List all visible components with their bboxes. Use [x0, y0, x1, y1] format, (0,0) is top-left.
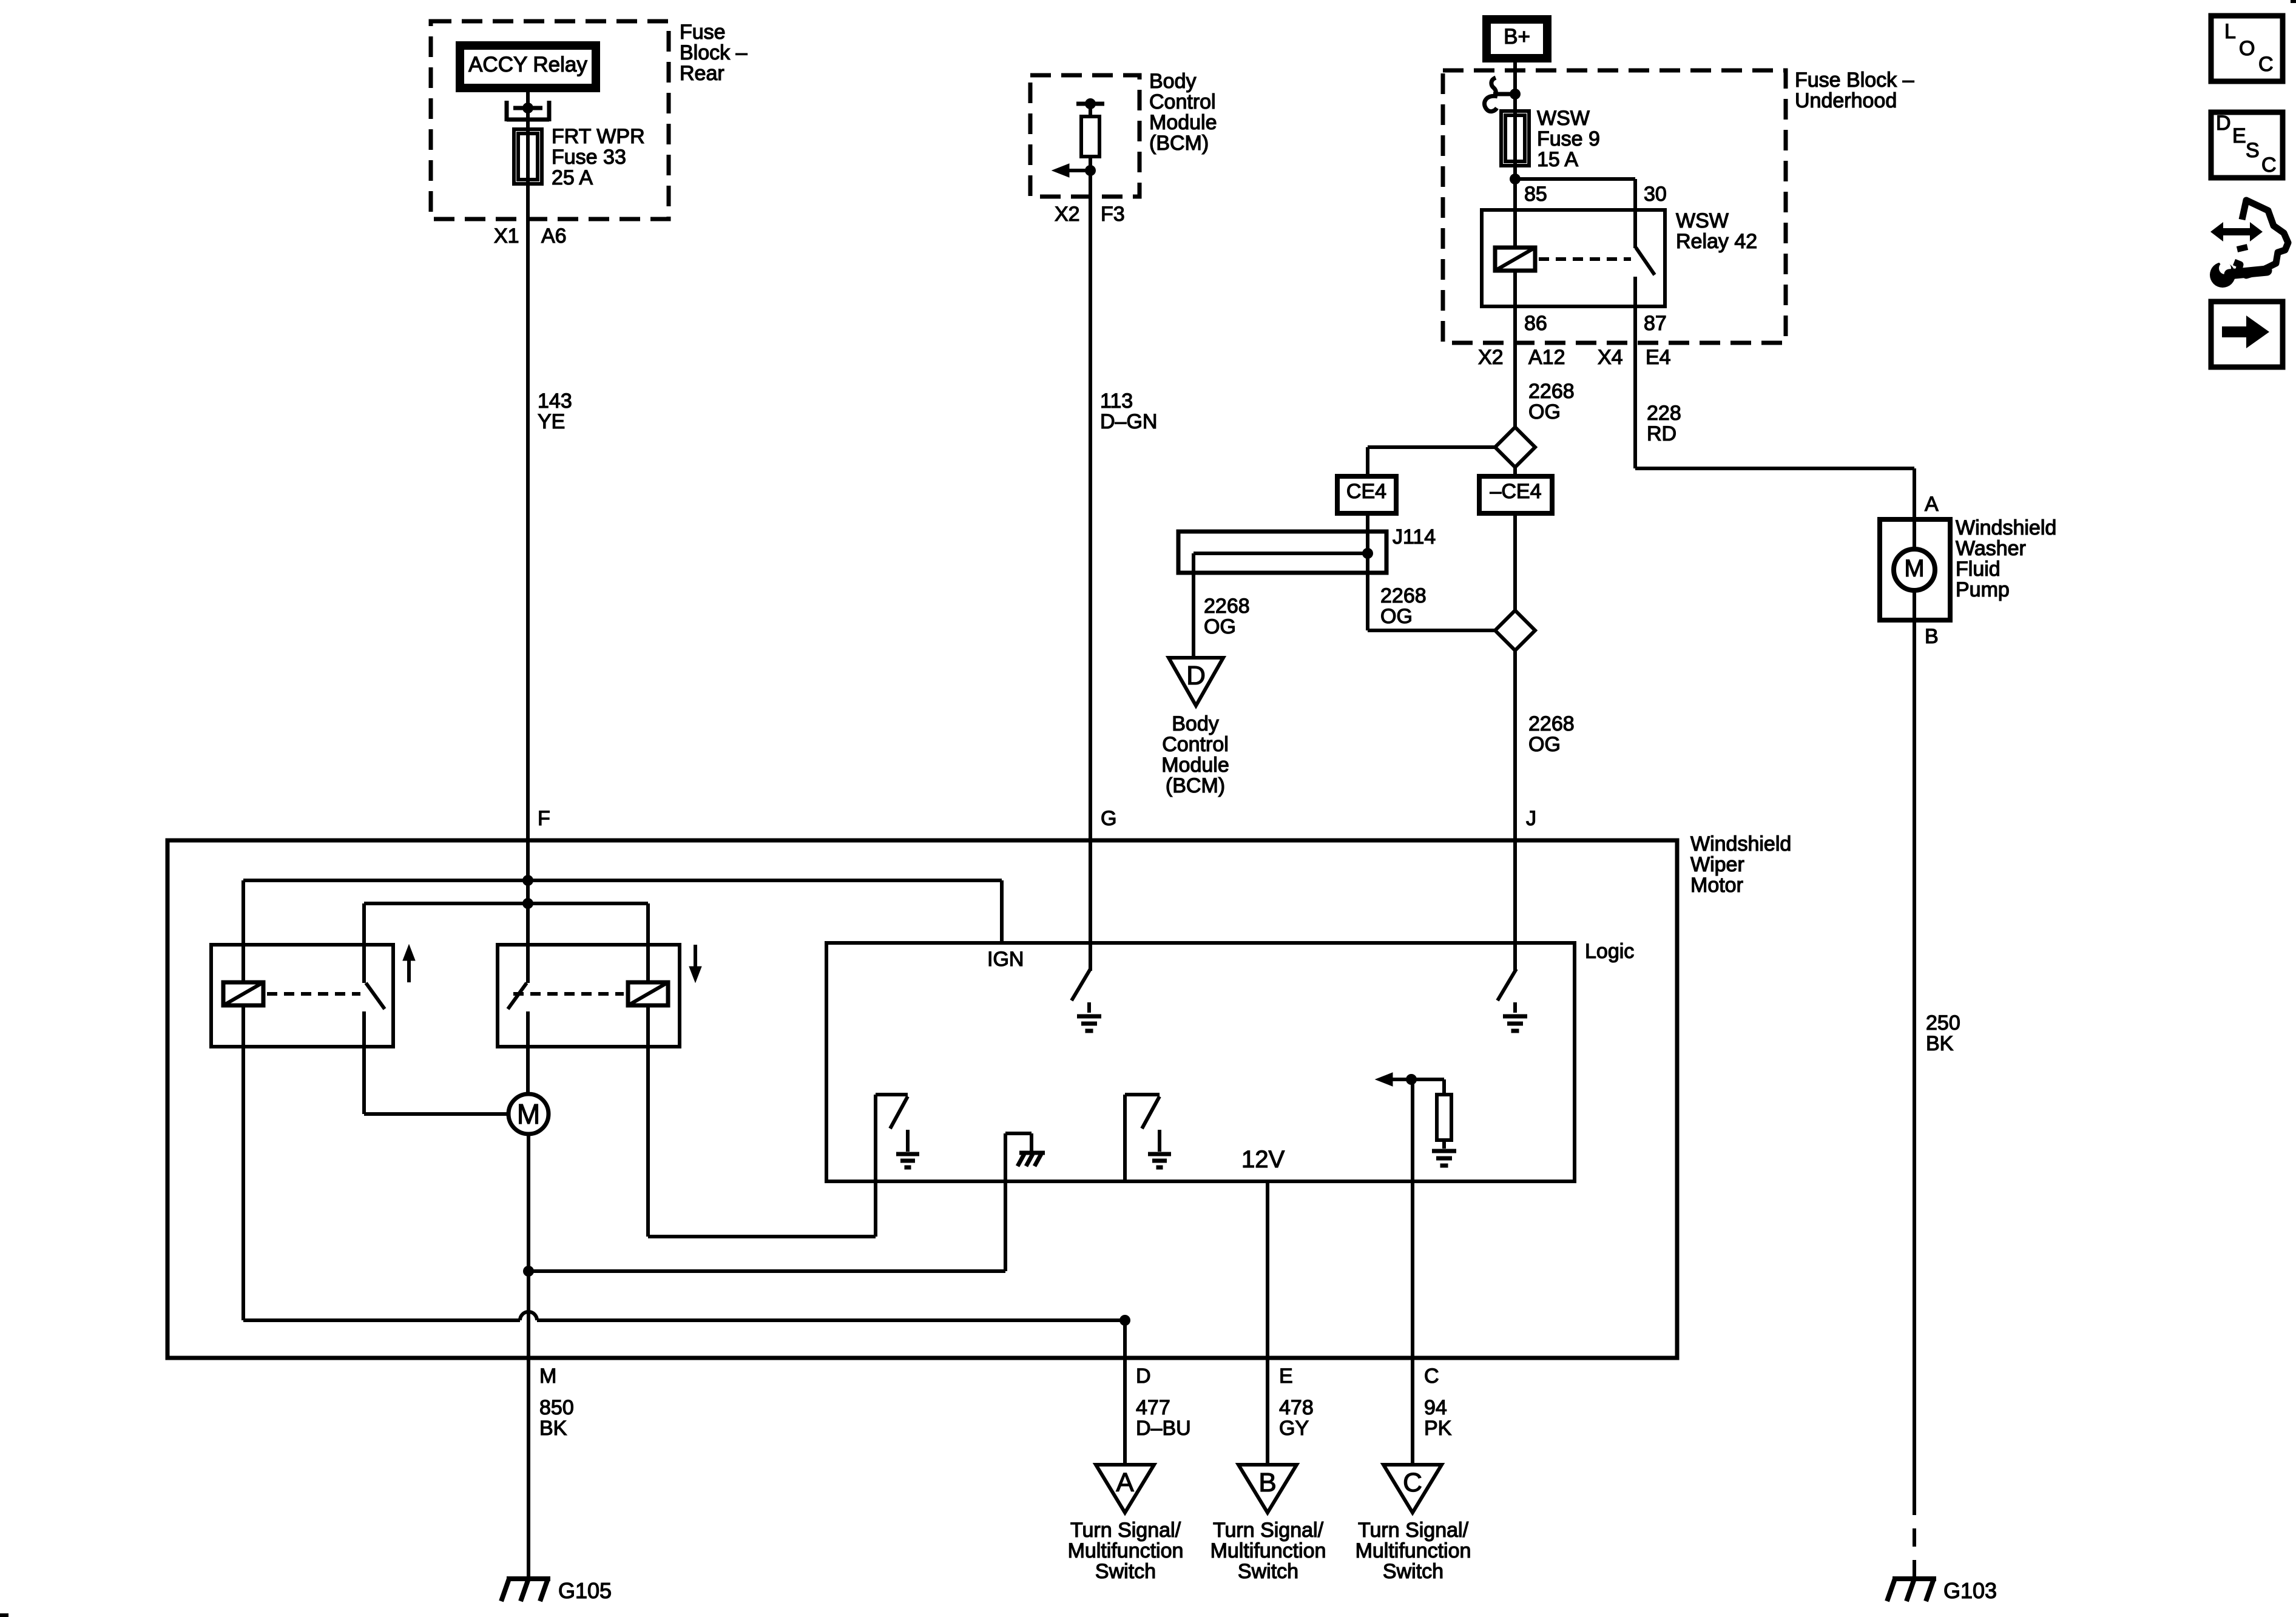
connector -CE4 — [1513, 467, 1517, 476]
svg-text:D: D — [2216, 112, 2231, 135]
svg-text:Windshield: Windshield — [1956, 516, 2056, 539]
wire relay up switch to motor — [362, 1047, 366, 1114]
svg-text:2268: 2268 — [1528, 712, 1575, 735]
svg-text:RD: RD — [1647, 422, 1676, 445]
svg-text:Fuse 9: Fuse 9 — [1537, 127, 1600, 150]
svg-text:143: 143 — [538, 390, 572, 413]
wire resistor to output node — [1089, 157, 1092, 197]
svg-text:IGN: IGN — [987, 948, 1024, 971]
svg-text:M: M — [1904, 555, 1924, 582]
ground G105 — [507, 1576, 550, 1581]
triangle C to turn signal switch — [1383, 1465, 1442, 1513]
svg-text:30: 30 — [1644, 183, 1667, 206]
svg-text:D: D — [1136, 1365, 1151, 1388]
svg-text:Body: Body — [1149, 70, 1197, 93]
svg-text:Windshield: Windshield — [1690, 832, 1791, 856]
ground G103 — [1893, 1576, 1936, 1581]
junction dot F wire lower — [522, 898, 533, 909]
svg-text:A6: A6 — [541, 224, 567, 248]
wire F to relay 2 switch — [526, 840, 530, 983]
svg-text:Fuse 33: Fuse 33 — [552, 146, 626, 169]
svg-text:B: B — [1925, 625, 1939, 648]
relay down dashed link — [513, 992, 624, 996]
logic module (box) — [826, 943, 1575, 1181]
svg-text:G105: G105 — [558, 1578, 612, 1603]
svg-text:G: G — [1101, 807, 1116, 830]
svg-text:BK: BK — [539, 1417, 567, 1440]
svg-text:E: E — [1279, 1365, 1293, 1388]
svg-text:Switch: Switch — [1383, 1560, 1443, 1583]
svg-text:850: 850 — [539, 1396, 574, 1419]
svg-text:Rear: Rear — [680, 62, 724, 85]
logic internal switch 1 (relay down coil driver) — [874, 1095, 877, 1181]
fuse WSW Fuse 9 15A — [1501, 111, 1529, 166]
junction dot in J114 — [1362, 548, 1373, 559]
wire C logic to triangle C — [1411, 1181, 1414, 1465]
svg-text:X1: X1 — [494, 224, 519, 248]
svg-text:Turn Signal/: Turn Signal/ — [1070, 1519, 1181, 1542]
battery feed B+ — [1487, 19, 1547, 58]
windshield washer fluid pump (box) — [1880, 519, 1950, 620]
splice diamond lower (2268 OG) — [1495, 610, 1535, 650]
relay down (box) — [498, 945, 680, 1047]
wire 2268 OG to wiper motor pin J — [1513, 650, 1517, 971]
svg-text:OG: OG — [1204, 615, 1236, 638]
svg-text:Fuse Block –: Fuse Block – — [1795, 69, 1914, 92]
junction dot motor output — [523, 1266, 534, 1277]
svg-text:2268: 2268 — [1380, 584, 1427, 607]
relay ACCY Relay (label box) — [460, 46, 596, 88]
svg-text:Washer: Washer — [1956, 537, 2026, 560]
svg-text:Control: Control — [1162, 733, 1229, 756]
icon box LOC — [2211, 16, 2283, 81]
svg-text:94: 94 — [1424, 1396, 1447, 1419]
svg-text:87: 87 — [1644, 312, 1667, 335]
junction dot below B+ — [1510, 89, 1521, 100]
svg-text:C: C — [2258, 53, 2274, 76]
wire D logic to triangle A — [1123, 1320, 1127, 1465]
windshield wiper motor (outer box) — [167, 840, 1677, 1358]
triangle A to turn signal switch — [1096, 1465, 1154, 1513]
svg-text:Switch: Switch — [1095, 1560, 1156, 1583]
svg-text:YE: YE — [538, 410, 565, 433]
wire branch to relay 1 switch and relay 2 coil — [364, 902, 648, 905]
svg-text:Control: Control — [1149, 90, 1216, 113]
junction dot at fuse 9 output — [1510, 174, 1521, 184]
wire J114 to BCM triangle D (2268 OG) — [1192, 553, 1195, 658]
svg-text:Multifunction: Multifunction — [1210, 1539, 1326, 1562]
svg-text:CE4: CE4 — [1346, 480, 1386, 503]
svg-text:F: F — [538, 807, 550, 830]
wire 228 RD relay 87 to washer pump — [1635, 467, 1914, 470]
svg-text:E: E — [2232, 124, 2246, 147]
svg-text:Switch: Switch — [1238, 1560, 1298, 1583]
svg-text:Motor: Motor — [1690, 874, 1743, 897]
svg-text:15 A: 15 A — [1537, 148, 1578, 171]
svg-text:Relay 42: Relay 42 — [1676, 230, 1757, 253]
triangle D to BCM — [1169, 658, 1223, 706]
svg-text:C: C — [1403, 1468, 1422, 1497]
resistor in BCM — [1081, 116, 1099, 157]
junction dot BCM supply — [1085, 98, 1096, 109]
svg-text:O: O — [2239, 37, 2255, 60]
wire motor node to logic — [528, 1269, 1005, 1273]
wire CE4 to splice pack J114 — [1366, 513, 1369, 532]
relay down coil — [628, 982, 668, 1005]
splice diamond (2268 OG) — [1495, 427, 1535, 467]
BCM internal supply bar — [1076, 102, 1104, 106]
wire dashed to G103 — [1913, 1497, 1916, 1578]
wire relay pin 86 to X2 A12 — [1513, 306, 1517, 428]
icon wiring repair (arrow, connector, wrench) — [2210, 222, 2263, 241]
svg-text:25 A: 25 A — [552, 166, 593, 189]
connector CE4 — [1337, 476, 1396, 513]
circuit breaker squiggle — [1491, 78, 1496, 95]
svg-text:Multifunction: Multifunction — [1068, 1539, 1184, 1562]
logic internal switch 2 (wire D driver) — [1123, 1095, 1127, 1181]
svg-text:WSW: WSW — [1676, 209, 1729, 232]
svg-text:A: A — [1116, 1468, 1134, 1497]
svg-text:250: 250 — [1926, 1011, 1960, 1035]
svg-text:(BCM): (BCM) — [1149, 132, 1209, 155]
page artifact bottom-left — [0, 1613, 8, 1617]
svg-text:B+: B+ — [1504, 25, 1530, 49]
wire relay down switch to motor — [526, 1047, 530, 1094]
svg-text:Block –: Block – — [680, 41, 748, 64]
svg-text:G103: G103 — [1943, 1578, 1997, 1603]
wiper motor M — [508, 1094, 549, 1134]
svg-text:86: 86 — [1524, 312, 1547, 335]
svg-text:PK: PK — [1424, 1417, 1452, 1440]
svg-text:X4: X4 — [1598, 346, 1623, 369]
relay WSW Relay 42 (box) — [1482, 210, 1665, 306]
svg-text:S: S — [2246, 139, 2260, 162]
wire relay up coil to D node with hop — [243, 1318, 520, 1322]
svg-text:WSW: WSW — [1537, 107, 1590, 130]
connector bracket below ACCY Relay — [505, 101, 509, 121]
triangle B to turn signal switch — [1238, 1465, 1297, 1513]
wire 143 YE (fuse 33 to wiper motor pin F) — [526, 184, 530, 840]
svg-text:M: M — [517, 1098, 540, 1130]
fuse block - underhood (dashed box) — [1443, 70, 1786, 343]
svg-text:J: J — [1526, 807, 1536, 830]
svg-text:D–BU: D–BU — [1136, 1417, 1191, 1440]
wire motor to ground 850 BK — [527, 1134, 530, 1578]
svg-text:Module: Module — [1161, 754, 1229, 777]
svg-text:OG: OG — [1380, 605, 1413, 628]
wire fuse 9 to relay pin 85 and pin 30 — [1513, 166, 1517, 210]
svg-text:C: C — [2261, 154, 2277, 177]
svg-text:J114: J114 — [1393, 525, 1436, 549]
fuse block - rear (dashed box) — [431, 21, 669, 219]
svg-text:478: 478 — [1279, 1396, 1314, 1419]
wire -CE4 down — [1513, 513, 1517, 610]
svg-text:Wiper: Wiper — [1690, 853, 1744, 876]
svg-text:228: 228 — [1647, 402, 1681, 425]
svg-text:Fluid: Fluid — [1956, 558, 2001, 581]
svg-text:L: L — [2224, 20, 2236, 43]
relay up coil — [223, 982, 263, 1005]
wire B+ to fuse 9 — [1513, 58, 1517, 111]
relay up (box) — [211, 945, 393, 1047]
icon box DESC — [2211, 112, 2283, 178]
junction dot at ACCY relay output — [522, 103, 533, 113]
icon box forward arrow — [2211, 302, 2283, 367]
svg-text:Fuse: Fuse — [680, 21, 726, 44]
svg-text:OG: OG — [1528, 400, 1561, 424]
wire relay down coil to logic — [646, 1005, 650, 1237]
svg-text:477: 477 — [1136, 1396, 1170, 1419]
svg-text:E4: E4 — [1646, 346, 1671, 369]
junction dot F wire upper — [522, 875, 533, 886]
svg-text:Body: Body — [1172, 712, 1219, 735]
wire 250 BK washer pump to ground — [1913, 590, 1916, 620]
logic internal chassis ground — [1004, 1133, 1007, 1181]
svg-text:Module: Module — [1149, 111, 1217, 134]
arrow down — [694, 945, 697, 969]
fuse FRT WPR Fuse 33 25A — [514, 129, 542, 184]
svg-text:85: 85 — [1524, 183, 1547, 206]
wire diamond to CE4 — [1368, 445, 1495, 449]
arrow up — [407, 958, 411, 982]
svg-text:Logic: Logic — [1585, 940, 1634, 963]
svg-text:D–GN: D–GN — [1100, 410, 1157, 433]
svg-text:12V: 12V — [1241, 1146, 1285, 1173]
svg-text:Pump: Pump — [1956, 578, 2010, 601]
wire BCM bar to resistor — [1089, 104, 1092, 116]
relay down switch — [508, 983, 527, 1009]
body control module (dashed box) — [1030, 75, 1140, 197]
svg-text:A12: A12 — [1528, 346, 1565, 369]
wire ACCY relay to fuse 33 — [526, 88, 530, 129]
wire relay pin 87 to X4 E4 — [1633, 306, 1637, 468]
wire 12V to triangle B — [1266, 1181, 1269, 1465]
svg-text:2268: 2268 — [1528, 380, 1575, 403]
svg-text:F3: F3 — [1101, 203, 1125, 226]
wire 113 D-GN (BCM to wiper motor pin G) — [1089, 197, 1092, 971]
wire branch to relay 1 coil and logic — [243, 879, 1002, 882]
relay up switch — [366, 983, 385, 1009]
relay 42 switch — [1633, 210, 1637, 248]
svg-text:–CE4: –CE4 — [1490, 480, 1541, 503]
svg-text:Turn Signal/: Turn Signal/ — [1358, 1519, 1469, 1542]
junction dot BCM output — [1085, 165, 1096, 176]
switch J input to ground — [1497, 969, 1516, 1001]
svg-text:(BCM): (BCM) — [1166, 774, 1225, 797]
svg-text:Turn Signal/: Turn Signal/ — [1213, 1519, 1324, 1542]
svg-text:B: B — [1258, 1468, 1276, 1497]
svg-text:2268: 2268 — [1204, 595, 1250, 618]
svg-text:ACCY Relay: ACCY Relay — [468, 53, 587, 76]
splice pack J114 — [1178, 532, 1386, 573]
logic internal pull-up resistor and arrow — [1411, 1079, 1414, 1181]
page artifact top-right — [2291, 0, 2296, 3]
svg-text:113: 113 — [1100, 390, 1133, 413]
svg-text:OG: OG — [1528, 733, 1561, 756]
svg-text:Multifunction: Multifunction — [1356, 1539, 1471, 1562]
svg-text:X2: X2 — [1478, 346, 1504, 369]
svg-text:A: A — [1925, 493, 1939, 516]
svg-text:M: M — [539, 1365, 556, 1388]
switch IGN to ground — [1072, 969, 1090, 1001]
svg-text:FRT WPR: FRT WPR — [552, 125, 645, 148]
svg-text:GY: GY — [1279, 1417, 1309, 1440]
relay 42 dashed actuation link — [1539, 257, 1631, 261]
junction dot on wire D — [1119, 1315, 1130, 1326]
washer pump motor M — [1894, 549, 1935, 590]
arrow (signal into BCM) — [1067, 169, 1090, 172]
svg-text:X2: X2 — [1055, 203, 1080, 226]
relay up dashed link — [267, 992, 360, 996]
relay 42 coil — [1513, 210, 1517, 248]
svg-text:D: D — [1186, 661, 1206, 690]
svg-text:Underhood: Underhood — [1795, 89, 1897, 112]
svg-text:BK: BK — [1926, 1032, 1954, 1055]
svg-text:C: C — [1424, 1365, 1439, 1388]
wire J114 to lower splice diamond — [1366, 573, 1369, 630]
